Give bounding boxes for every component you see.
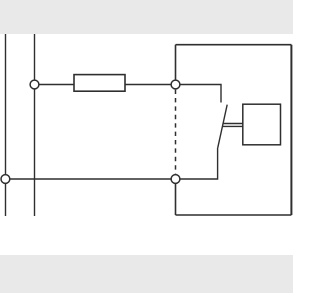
actuator link (double line) lower <box>222 125 243 127</box>
wire: supply bus L1 (left vertical) <box>5 34 7 216</box>
node D (terminal on bus L1) <box>1 175 10 184</box>
node C (device terminal, bottom) <box>171 175 180 184</box>
wire: node D to node C (lower horizontal) <box>6 178 176 180</box>
wire: supply bus L2 (second vertical) <box>34 34 36 216</box>
node B (device terminal, top) <box>171 80 180 89</box>
node A (terminal on bus L2) <box>30 80 39 89</box>
resistor R1 <box>74 75 125 92</box>
device enclosure box: left edge upper solid segment <box>175 45 177 81</box>
device enclosure box: left edge lower solid segment <box>175 184 177 216</box>
wire: node A to resistor R1 <box>35 84 75 86</box>
device enclosure box: right edge <box>290 45 292 215</box>
bottom gray band <box>0 255 293 293</box>
dashed boundary line between node B and node C <box>175 90 177 175</box>
wire: node B to switch fixed contact <box>176 85 222 103</box>
actuator box (sensor head) <box>243 104 281 145</box>
device enclosure box: bottom edge <box>176 214 292 216</box>
actuator link (double line) upper <box>223 123 243 125</box>
switch S1 blade (normally-open contact) <box>218 105 228 148</box>
top gray band <box>0 0 293 34</box>
device enclosure box: top edge <box>176 44 292 46</box>
wire: switch lower terminal to node C <box>176 148 218 179</box>
wire: resistor R1 to node B <box>125 84 176 86</box>
